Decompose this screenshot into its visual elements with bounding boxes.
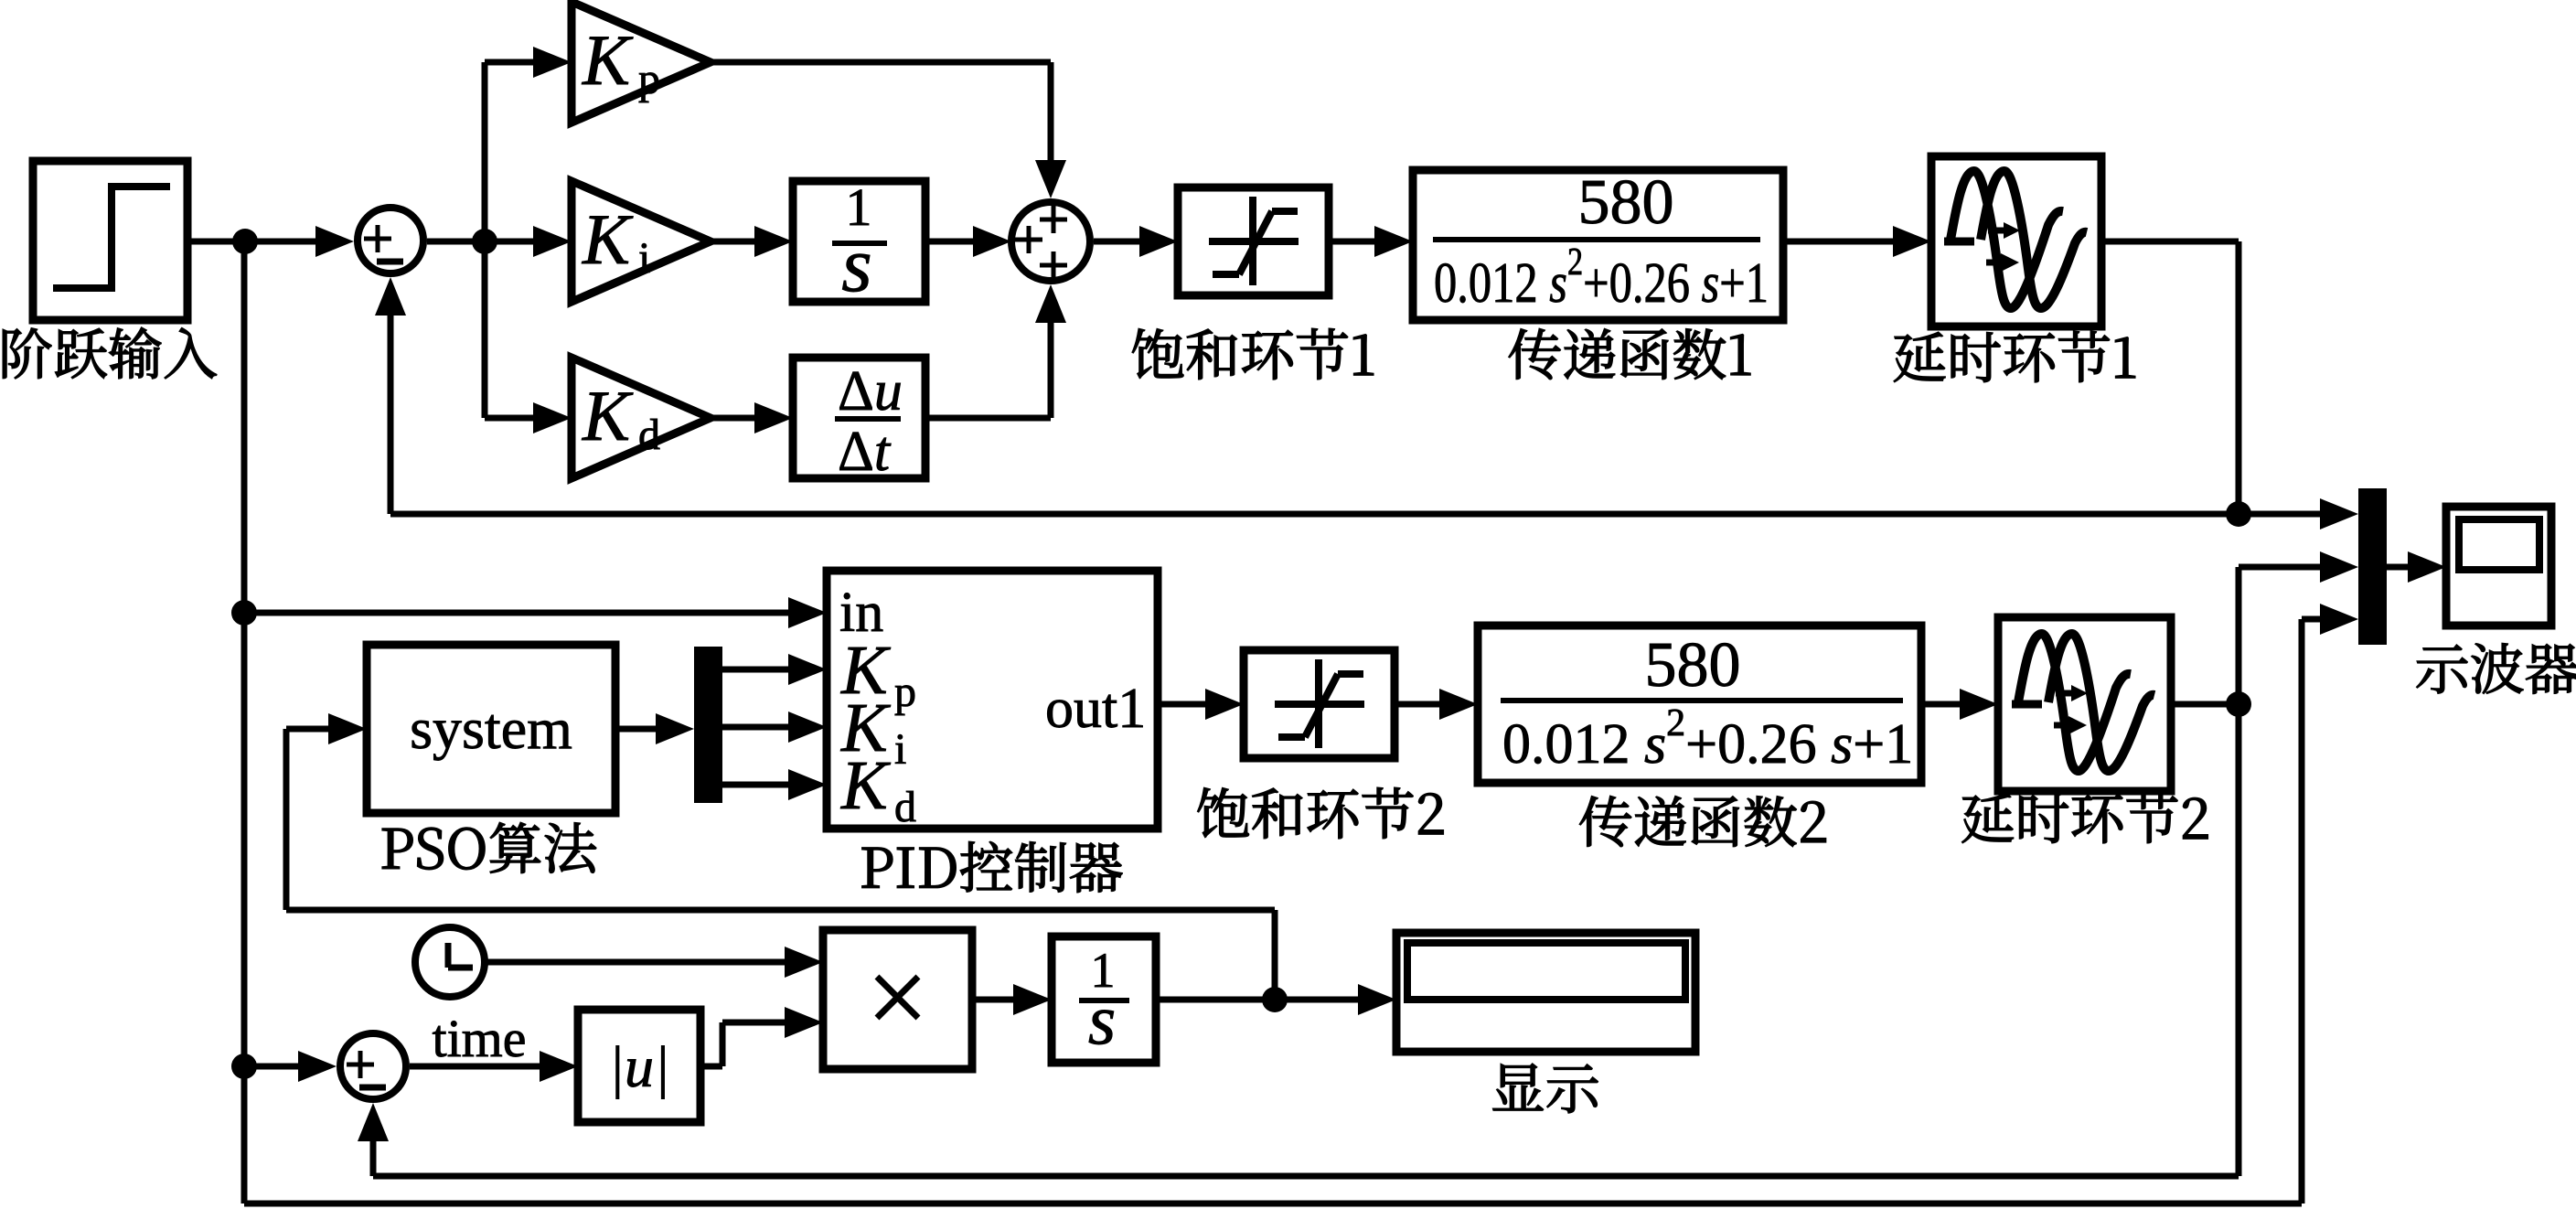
svg-text:p: p: [638, 55, 660, 103]
svg-text:0.012 s2+0.26 s+1: 0.012 s2+0.26 s+1: [1502, 702, 1913, 776]
svg-text:0.012 s2+0.26 s+1: 0.012 s2+0.26 s+1: [1434, 241, 1769, 315]
svg-text:s: s: [841, 220, 871, 308]
svg-text:d: d: [894, 783, 916, 831]
svg-text:system: system: [410, 696, 572, 761]
svg-text:out1: out1: [1045, 678, 1146, 740]
svg-text:p: p: [894, 668, 916, 716]
svg-text:Δt: Δt: [838, 421, 892, 483]
svg-text:K: K: [582, 199, 634, 279]
svg-text:|u|: |u|: [608, 1034, 669, 1099]
svg-text:580: 580: [1645, 630, 1741, 701]
svg-text:K: K: [582, 376, 634, 455]
svg-text:s: s: [1088, 979, 1116, 1059]
svg-text:580: 580: [1578, 167, 1674, 238]
svg-text:i: i: [638, 234, 650, 283]
svg-text:d: d: [638, 411, 660, 459]
svg-text:i: i: [894, 725, 906, 774]
svg-text:Δu: Δu: [838, 360, 903, 423]
svg-text:time: time: [432, 1009, 526, 1068]
svg-text:K: K: [582, 20, 634, 100]
svg-text:K: K: [840, 747, 891, 824]
